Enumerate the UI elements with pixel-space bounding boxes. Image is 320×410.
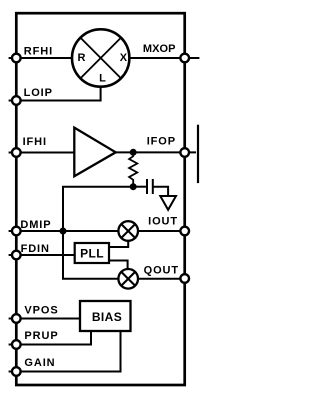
wire capacitor to ground — [153, 187, 168, 196]
svg-text:VPOS: VPOS — [24, 305, 58, 317]
svg-text:FDIN: FDIN — [21, 243, 50, 255]
wire feedback from RC junction to DMIP node and Q mixer — [63, 187, 133, 279]
wire amp output to IFOP stub — [116, 151, 197, 153]
wire DMIP to I mixer — [9, 230, 119, 232]
pin VPOS — [12, 305, 59, 323]
svg-text:R: R — [78, 52, 86, 64]
wire PLL to Q mixer — [109, 261, 128, 270]
pin RFHI — [12, 46, 53, 63]
svg-text:RFHI: RFHI — [24, 46, 53, 58]
node DMIP junction — [60, 228, 67, 235]
wire RFHI to mixer — [9, 57, 73, 59]
svg-text:IFHI: IFHI — [23, 136, 47, 148]
svg-text:BIAS: BIAS — [92, 310, 122, 324]
svg-text:PLL: PLL — [80, 247, 104, 261]
wire mixer X output to MXOP stub — [128, 57, 199, 59]
ground — [160, 196, 176, 210]
wire PRUP to BIAS — [9, 331, 91, 345]
IC outline box — [16, 13, 184, 385]
svg-text:QOUT: QOUT — [144, 264, 179, 276]
wire LOIP to mixer L input — [9, 85, 101, 101]
svg-text:DMIP: DMIP — [20, 219, 51, 231]
op-amp A1 (IF amplifier) — [74, 128, 115, 177]
svg-text:X: X — [120, 52, 128, 64]
wire PLL to I mixer — [109, 241, 128, 248]
resistor R1 — [129, 152, 137, 186]
wire junction to capacitor — [133, 186, 146, 188]
pin QOUT — [144, 264, 189, 283]
node RC junction — [130, 183, 137, 190]
mixer U1 — [72, 29, 129, 86]
BIAS block — [80, 301, 131, 331]
svg-text:LOIP: LOIP — [24, 87, 53, 99]
svg-text:IFOP: IFOP — [147, 136, 176, 148]
pin PRUP — [12, 330, 59, 349]
pin GAIN — [12, 357, 56, 376]
pin IFHI — [12, 136, 47, 157]
wire Q mixer to QOUT — [138, 278, 185, 280]
pin IFOP — [147, 136, 189, 157]
wire IFHI to amplifier — [9, 152, 74, 154]
wire FDIN to PLL — [9, 254, 75, 256]
wire I mixer to IOUT — [138, 230, 185, 232]
pin MXOP — [143, 43, 189, 62]
node IFOP external bar — [197, 125, 199, 183]
pin DMIP — [12, 219, 52, 235]
node amp output junction dot — [130, 149, 137, 156]
PLL block — [75, 243, 109, 263]
mixer Q demodulator — [118, 269, 138, 289]
svg-text:L: L — [99, 73, 106, 85]
capacitor C1 — [147, 179, 153, 194]
svg-text:PRUP: PRUP — [24, 330, 58, 342]
svg-text:GAIN: GAIN — [24, 357, 55, 369]
pin LOIP — [12, 87, 53, 105]
wire VPOS to BIAS — [9, 318, 80, 320]
pin FDIN — [12, 243, 50, 259]
pin IOUT — [148, 215, 189, 235]
svg-text:MXOP: MXOP — [143, 43, 176, 55]
wire GAIN to BIAS — [9, 331, 121, 372]
mixer I demodulator — [118, 221, 138, 241]
svg-text:IOUT: IOUT — [148, 215, 178, 227]
